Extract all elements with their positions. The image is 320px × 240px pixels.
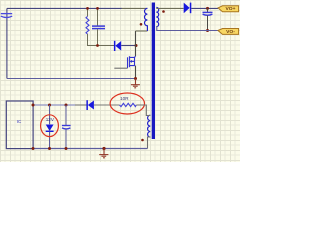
node: drain junction — [135, 44, 138, 47]
wire: drain vertical — [135, 31, 137, 56]
node: vcc cap branch top — [65, 104, 68, 107]
wire: VCC feed to D3 — [75, 104, 87, 106]
node: source/ground junction — [134, 77, 137, 80]
wire: top rail right segment to transformer — [122, 7, 148, 9]
wire: R2 to aux winding — [136, 105, 150, 116]
node: cap C3 bottom — [65, 147, 68, 150]
transformer T1 primary winding — [144, 8, 147, 31]
diode D1 (snubber clamp, pointing left) — [114, 41, 136, 51]
port VO+ — [218, 6, 239, 12]
polarity dot primary — [140, 23, 143, 26]
wire: VCC feed (box to zener/cap) — [33, 104, 75, 106]
wire: secondary bottom lead — [156, 27, 218, 31]
svg-text:12V: 12V — [46, 117, 55, 122]
node: rail junction C2 — [96, 7, 99, 10]
capacitor C4 (output, polarized) — [203, 8, 213, 30]
transformer T1 secondary winding — [156, 7, 158, 26]
IC U1 (controller) — [6, 101, 33, 149]
node: ground2 junction — [102, 147, 105, 150]
wire: aux winding bottom lead — [148, 137, 151, 149]
wire: top VIN rail — [7, 7, 122, 9]
node: zener branch top — [48, 104, 51, 107]
node: output cap bottom junction — [206, 29, 209, 32]
diode D2 (output rectifier, pointing right) — [184, 3, 218, 14]
node: box bottom corner — [32, 147, 35, 150]
diode D3 (VCC rectifier, pointing left) — [86, 100, 119, 110]
wire: bottom ground rail — [33, 148, 148, 150]
sheet background — [0, 0, 240, 162]
ground (primary side) — [131, 79, 140, 88]
transistor Q1 (N-MOSFET) — [128, 56, 136, 68]
wire: gate stub — [114, 67, 127, 69]
wire: snubber bottom — [87, 45, 114, 47]
highlight ellipse around 10R — [110, 93, 144, 114]
wire: source vertical — [135, 66, 137, 79]
polarity dot auxiliary — [141, 139, 144, 142]
ground (secondary-side bottom) — [99, 149, 108, 158]
wire: long return wire to ground — [7, 78, 136, 80]
capacitor C3 (VCC, polarized) — [62, 105, 71, 149]
wire: primary bottom lead — [136, 30, 148, 32]
capacitor C1 (input bulk, polarized) — [1, 14, 12, 18]
capacitor C2 (snubber) — [92, 8, 105, 45]
svg-text:VO+: VO+ — [226, 6, 236, 12]
wire: left vertical down through C1 — [6, 8, 8, 78]
port VO- — [218, 29, 239, 35]
node: box VCC pin — [32, 104, 35, 107]
node: output cap top junction — [206, 7, 209, 10]
node: rail junction R1 — [86, 7, 89, 10]
highlight ellipse around zener — [41, 115, 59, 137]
svg-text:VO-: VO- — [226, 29, 235, 35]
zener diode DZ 12V (pointing down) — [46, 105, 54, 149]
node: zener bottom — [48, 147, 51, 150]
transformer T1 core — [152, 3, 155, 140]
node: snubber cap junction — [96, 44, 99, 47]
resistor R1 (snubber) — [86, 8, 89, 45]
svg-text:10R: 10R — [120, 96, 129, 101]
transformer T1 auxiliary winding — [148, 115, 151, 137]
resistor R2 10R — [120, 103, 137, 106]
wire: secondary top lead — [156, 7, 183, 9]
polarity dot secondary — [162, 10, 165, 13]
svg-text:IC: IC — [17, 119, 22, 124]
